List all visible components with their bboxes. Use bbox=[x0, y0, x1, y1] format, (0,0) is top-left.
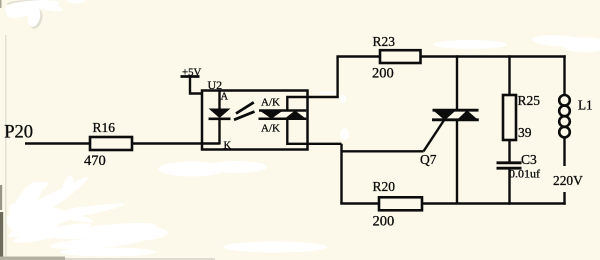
wire C3 to bottom bbox=[508, 168, 510, 205]
svg-text:R20: R20 bbox=[373, 179, 396, 194]
wire vertical junction to R20 bbox=[340, 144, 342, 204]
capacitor C3 bbox=[497, 163, 522, 168]
bottom wire bbox=[340, 202, 565, 204]
optical coupling marks bbox=[234, 102, 255, 120]
svg-text:L1: L1 bbox=[578, 98, 593, 113]
svg-text:470: 470 bbox=[84, 153, 106, 169]
svg-text:P20: P20 bbox=[4, 123, 33, 143]
wire gate of Q7 bbox=[342, 150, 424, 152]
svg-text:A/K: A/K bbox=[261, 97, 280, 109]
wire U2 output bottom terminal bbox=[287, 119, 341, 144]
wire P20 to R16 bbox=[25, 142, 92, 144]
wire +5V to U2 bbox=[190, 77, 203, 94]
svg-text:A: A bbox=[221, 92, 229, 103]
wire L1 to gap bbox=[563, 137, 565, 166]
svg-text:C3: C3 bbox=[521, 152, 537, 167]
svg-text:R16: R16 bbox=[93, 120, 116, 135]
resistor R25 bbox=[503, 95, 516, 140]
svg-text:R25: R25 bbox=[518, 93, 541, 108]
top wire left segment bbox=[336, 55, 382, 57]
svg-text:0.01uf: 0.01uf bbox=[509, 167, 540, 181]
power +5V bbox=[181, 67, 202, 79]
inductor L1 bbox=[559, 95, 570, 137]
svg-text:R23: R23 bbox=[373, 34, 396, 49]
top wire right segment bbox=[419, 55, 566, 57]
phototriac of U2 bbox=[259, 111, 307, 119]
wire R16 to U2 pin K bbox=[130, 142, 220, 144]
resistor R16 bbox=[90, 137, 132, 150]
LED cathode wire bbox=[218, 120, 220, 145]
right rail lower bbox=[563, 192, 565, 205]
wire U2 output top terminal to R23 bbox=[287, 57, 337, 111]
triac Q7 bbox=[424, 110, 479, 151]
svg-text:39: 39 bbox=[518, 125, 532, 140]
svg-text:200: 200 bbox=[373, 214, 395, 230]
wire R25 branch top bbox=[508, 55, 510, 96]
wire Q7 lower bbox=[456, 119, 458, 204]
optocoupler U2 box bbox=[202, 91, 308, 150]
svg-text:220V: 220V bbox=[553, 173, 583, 188]
resistor R23 bbox=[380, 50, 421, 63]
svg-text:U2: U2 bbox=[208, 78, 223, 92]
svg-text:Q7: Q7 bbox=[420, 152, 437, 167]
svg-text:K: K bbox=[224, 141, 232, 152]
svg-text:A/K: A/K bbox=[261, 123, 280, 135]
LED of U2 bbox=[209, 109, 231, 119]
resistor R20 bbox=[379, 197, 422, 210]
LED anode wire bbox=[218, 91, 220, 109]
right rail upper bbox=[563, 55, 565, 95]
wire R25 to C3 bbox=[508, 140, 510, 162]
wire Q7 upper bbox=[456, 55, 458, 111]
svg-text:200: 200 bbox=[372, 66, 394, 82]
